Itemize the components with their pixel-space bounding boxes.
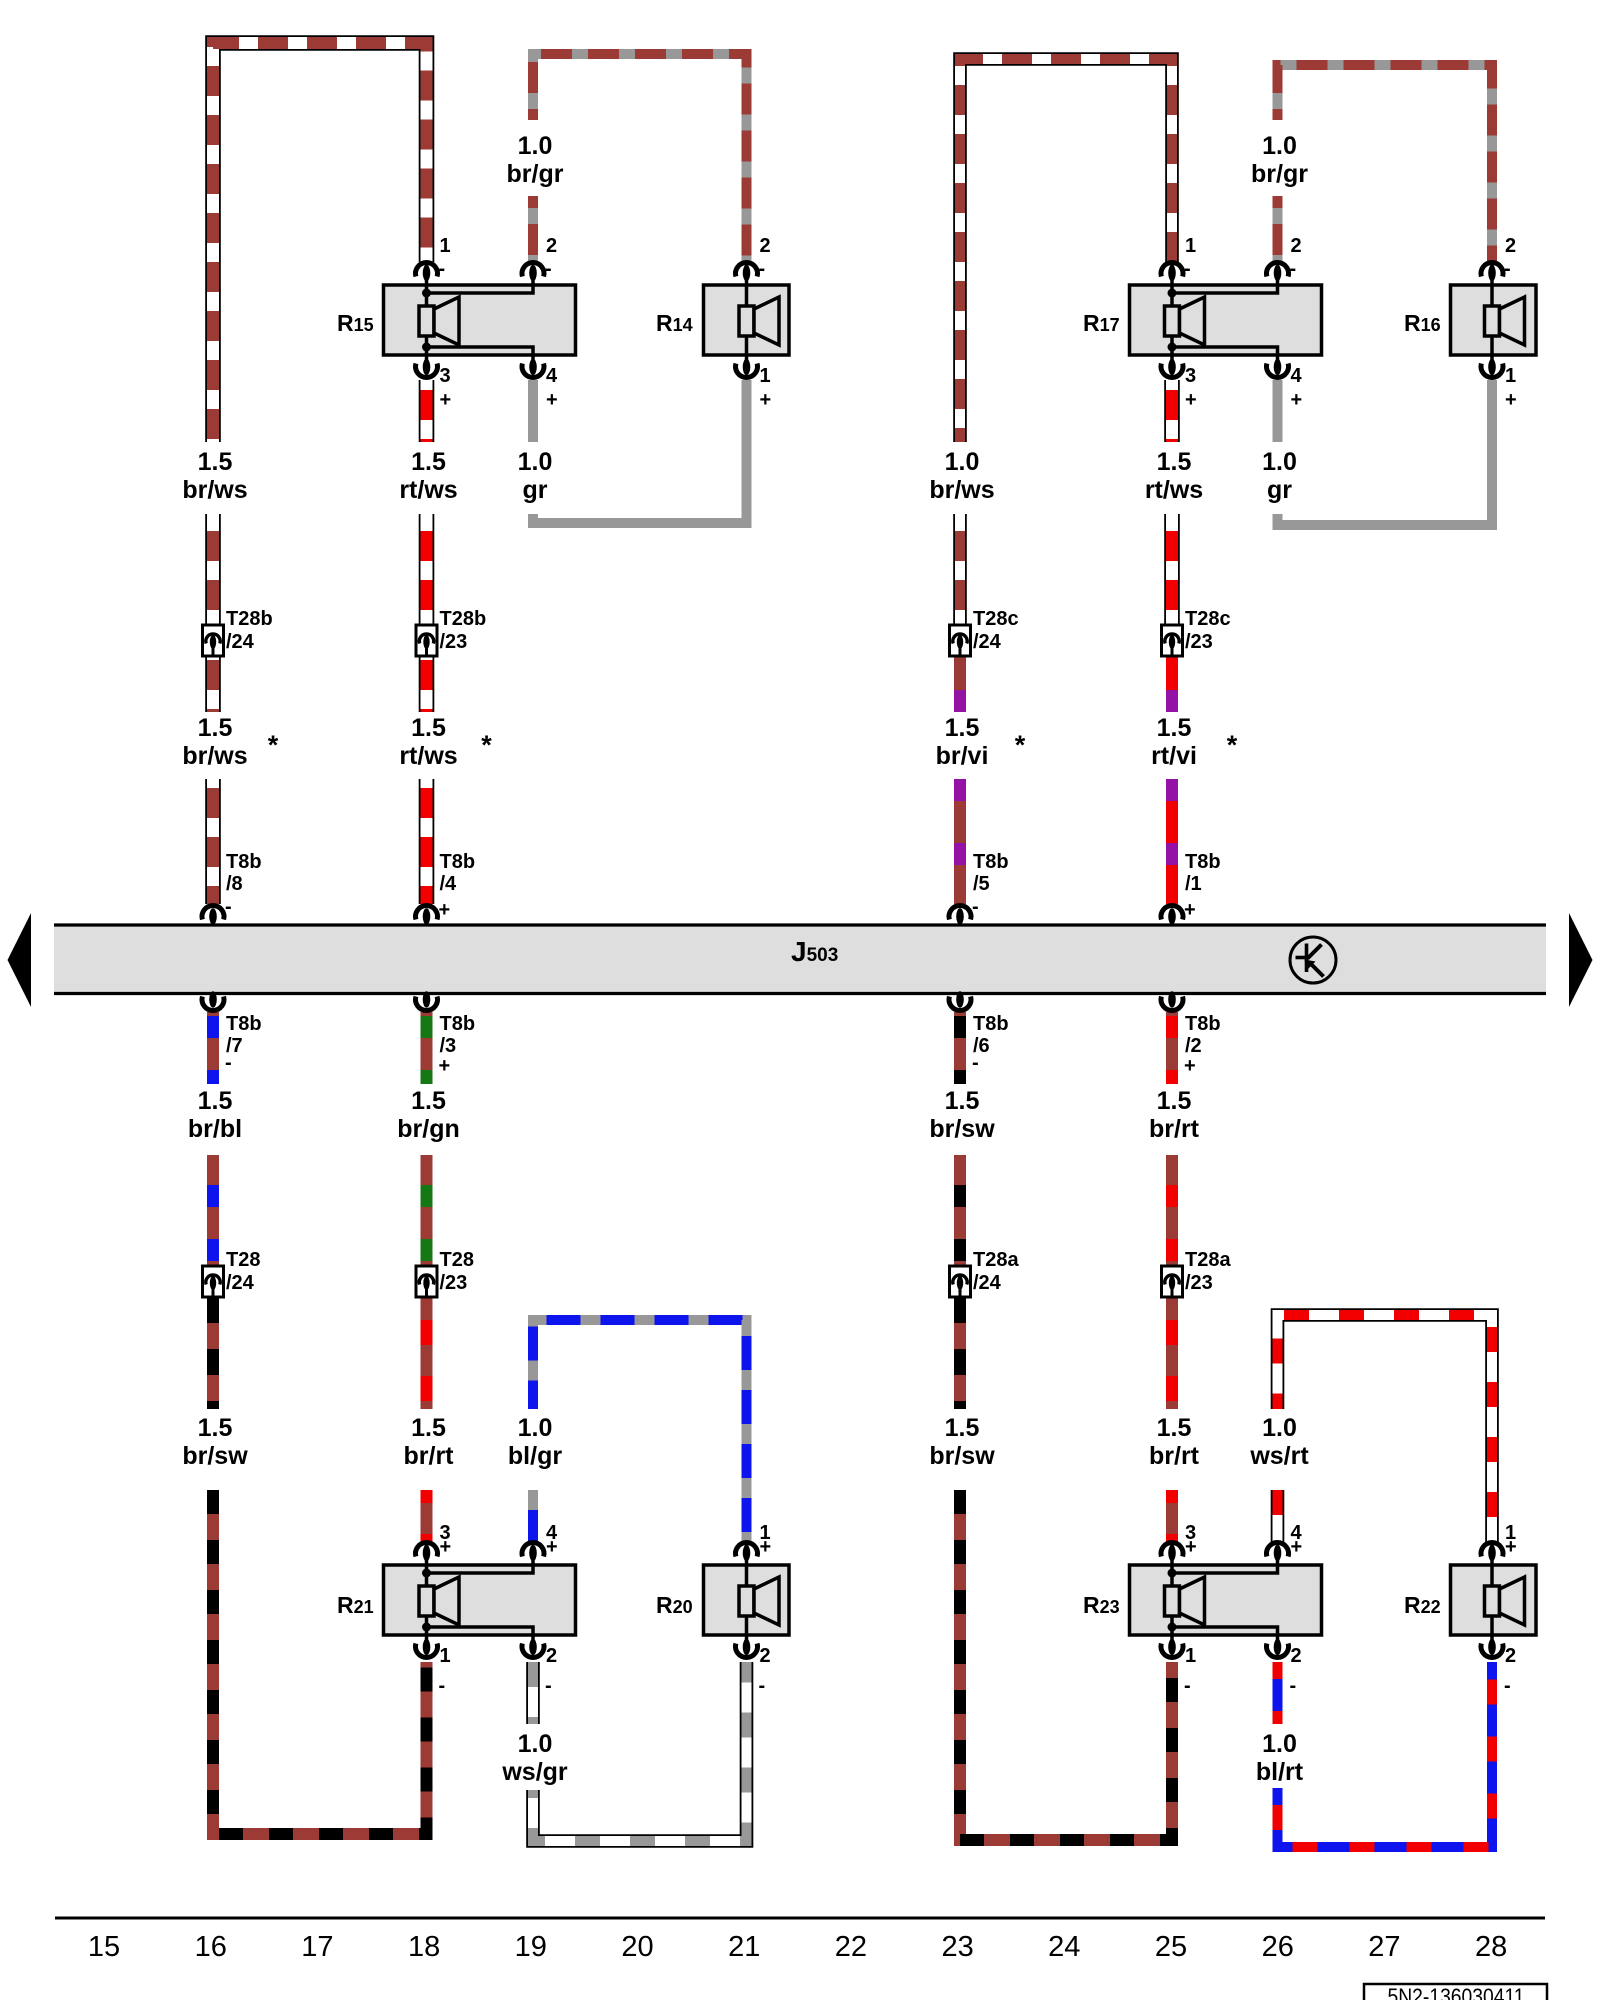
- wire 1.0 bl/rt loop to R22 pin2: [1278, 1662, 1493, 1847]
- svg-text:R23: R23: [1083, 1592, 1120, 1618]
- part number 5N2-136030411: [1364, 1984, 1547, 2000]
- svg-text:17: 17: [301, 1931, 333, 1963]
- svg-text:3: 3: [1185, 365, 1196, 387]
- svg-text:T28c: T28c: [973, 608, 1019, 630]
- loudspeaker R21: [384, 1544, 576, 1654]
- svg-text:5N2-136030411: 5N2-136030411: [1388, 1984, 1525, 2000]
- svg-text:+: +: [440, 1536, 452, 1558]
- svg-text:/3: /3: [440, 1035, 457, 1057]
- pin R20/1: [736, 1522, 772, 1561]
- svg-text:*: *: [1227, 730, 1238, 760]
- pin R16/2: [1481, 235, 1516, 281]
- wire label 1.5 rt/ws right row1: [1145, 448, 1203, 504]
- svg-text:1: 1: [1185, 235, 1196, 257]
- svg-text:1.5: 1.5: [945, 1087, 980, 1115]
- svg-text:1.0: 1.0: [518, 132, 553, 160]
- svg-text:rt/ws: rt/ws: [1145, 476, 1203, 504]
- svg-text:1.5: 1.5: [1157, 714, 1192, 742]
- loudspeaker R14: [704, 264, 790, 374]
- svg-text:/23: /23: [440, 1272, 468, 1294]
- connector T8b/1 at J503: [1161, 851, 1221, 925]
- svg-text:-: -: [225, 1052, 232, 1074]
- svg-text:/24: /24: [226, 1272, 255, 1294]
- svg-text:+: +: [1291, 389, 1303, 411]
- wire 1.5 br/rt col25 seg3: [1166, 1297, 1178, 1409]
- svg-text:/24: /24: [226, 631, 255, 653]
- designator R23: [1083, 1592, 1120, 1618]
- svg-text:br/sw: br/sw: [929, 1442, 995, 1470]
- svg-text:T28b: T28b: [440, 608, 487, 630]
- loudspeaker R17: [1130, 264, 1322, 374]
- svg-text:1.5: 1.5: [198, 714, 233, 742]
- svg-text:br/bl: br/bl: [188, 1115, 242, 1143]
- designator J503: [791, 936, 838, 967]
- wire 1.5 br/rt col18 seg4: [421, 1490, 433, 1542]
- svg-text:1.5: 1.5: [1157, 1414, 1192, 1442]
- control unit J503: [54, 925, 1546, 994]
- wire 1.0 br/gr R15 pin2 upper: [528, 196, 538, 262]
- wire 1.0 gr loop to R16 pin1: [1278, 380, 1493, 525]
- connector T8b/8 at J503: [202, 851, 262, 925]
- wire 1.5 rt/ws col18 seg3: [419, 657, 435, 712]
- svg-text:R22: R22: [1404, 1592, 1441, 1618]
- pin R14/2: [736, 235, 771, 281]
- continuation arrow right: [1569, 913, 1593, 1007]
- svg-text:/5: /5: [973, 873, 990, 895]
- svg-text:+: +: [546, 1536, 558, 1558]
- svg-text:-: -: [759, 258, 766, 280]
- wire 1.0 gr loop to R14 pin1: [533, 380, 747, 523]
- svg-text:2: 2: [760, 1645, 771, 1667]
- svg-text:/23: /23: [1185, 631, 1213, 653]
- svg-text:1.5: 1.5: [1157, 1087, 1192, 1115]
- svg-text:-: -: [1504, 1675, 1511, 1697]
- svg-text:rt/ws: rt/ws: [399, 476, 457, 504]
- pin R17/4: [1266, 359, 1302, 411]
- inline connector T28a/24: [950, 1249, 1020, 1297]
- wire 1.5 br/ws left loop R15 pin1: [213, 43, 427, 442]
- inline connector T28c/23: [1162, 608, 1231, 656]
- svg-text:1: 1: [1505, 365, 1516, 387]
- wire 1.5 rt/vi col25 seg3: [1166, 657, 1178, 712]
- wire label 1.5 br/bl: [188, 1087, 242, 1143]
- svg-text:T8b: T8b: [440, 851, 476, 873]
- loudspeaker R15: [384, 264, 576, 374]
- pin R15/2: [522, 235, 557, 281]
- svg-text:1.5: 1.5: [198, 1414, 233, 1442]
- svg-text:rt/ws: rt/ws: [399, 742, 457, 770]
- grid numbers 15-28: [88, 1931, 1507, 1963]
- svg-text:+: +: [760, 389, 772, 411]
- svg-text:br/gr: br/gr: [507, 160, 564, 188]
- wire 1.5 rt/vi col25 seg4: [1166, 779, 1178, 904]
- svg-text:26: 26: [1262, 1931, 1294, 1963]
- pin R20/2: [736, 1639, 771, 1697]
- connector T8b/3 at J503: [416, 991, 476, 1077]
- pin R17/3: [1161, 359, 1197, 411]
- svg-text:2: 2: [1505, 235, 1516, 257]
- svg-text:1.5: 1.5: [198, 1087, 233, 1115]
- wire 1.5 br/vi col23 seg3: [954, 657, 966, 712]
- inline connector T28b/23: [416, 608, 486, 656]
- wire label 1.0 gr left: [518, 448, 553, 504]
- inline connector T28/24: [203, 1249, 261, 1297]
- svg-text:+: +: [440, 389, 452, 411]
- pin R17/2: [1266, 235, 1301, 281]
- svg-text:T8b: T8b: [226, 1013, 262, 1035]
- svg-text:br/rt: br/rt: [1149, 1115, 1200, 1143]
- svg-text:25: 25: [1155, 1931, 1187, 1963]
- wire 1.5 br/gn col18 seg1: [421, 1012, 433, 1084]
- svg-text:27: 27: [1368, 1931, 1400, 1963]
- wire label 1.5 br/ws row2: [182, 714, 247, 770]
- wire 1.0 br/gr loop to R16 pin2: [1278, 65, 1493, 262]
- pin R16/1: [1481, 359, 1517, 411]
- svg-text:-: -: [439, 1675, 446, 1697]
- wire label 1.0 br/gr left: [507, 132, 564, 188]
- svg-text:br/ws: br/ws: [182, 742, 247, 770]
- svg-text:28: 28: [1475, 1931, 1507, 1963]
- designator R15: [337, 310, 374, 336]
- wire 1.5 br/sw col23 seg1: [954, 1012, 966, 1084]
- wire label 1.5 br/rt row4: [404, 1414, 455, 1470]
- pin R23/4: [1267, 1522, 1303, 1561]
- svg-text:1.5: 1.5: [945, 1414, 980, 1442]
- svg-text:-: -: [225, 896, 232, 918]
- svg-text:16: 16: [195, 1931, 227, 1963]
- svg-text:1.0: 1.0: [518, 1414, 553, 1442]
- svg-text:br/gr: br/gr: [1251, 160, 1308, 188]
- footnote asterisk col25: [1227, 730, 1238, 760]
- svg-text:R17: R17: [1083, 310, 1120, 336]
- wire 1.5 br/bl col16 seg2: [207, 1155, 219, 1266]
- inline connector T28b/24: [203, 608, 273, 656]
- connector T8b/5 at J503: [949, 851, 1009, 925]
- pin R23/2: [1267, 1639, 1302, 1697]
- wire 1.0 bl/gr col19 seg2: [528, 1490, 538, 1542]
- wire 1.0 ws/gr loop to R20 pin2: [533, 1662, 747, 1841]
- wire label 1.5 br/rt right r4: [1149, 1414, 1200, 1470]
- wire 1.5 br/rt col25 seg4: [1166, 1490, 1178, 1542]
- svg-text:/24: /24: [973, 1272, 1002, 1294]
- wire 1.5 rt/ws col18 seg1: [419, 380, 435, 442]
- wire 1.0 bl/rt col26 seg1: [1273, 1662, 1283, 1724]
- svg-text:-: -: [1290, 1675, 1297, 1697]
- svg-text:T8b: T8b: [973, 851, 1009, 873]
- wire 1.0 br/gr R17 pin2 upper: [1273, 196, 1283, 262]
- svg-text:+: +: [1505, 1536, 1517, 1558]
- svg-text:24: 24: [1048, 1931, 1080, 1963]
- footnote asterisk col16: [268, 730, 279, 760]
- wire label 1.0 br/ws right row1: [929, 448, 994, 504]
- svg-text:3: 3: [440, 365, 451, 387]
- loudspeaker R23: [1130, 1544, 1322, 1654]
- inline connector T28a/23: [1162, 1249, 1232, 1297]
- pin R21/3: [416, 1522, 452, 1561]
- connector T8b/6 at J503: [949, 991, 1009, 1074]
- svg-text:1.5: 1.5: [198, 448, 233, 476]
- svg-text:-: -: [1504, 258, 1511, 280]
- svg-text:T8b: T8b: [226, 851, 262, 873]
- svg-text:-: -: [1184, 258, 1191, 280]
- wire label 1.5 rt/ws row1: [399, 448, 457, 504]
- connector T8b/7 at J503: [202, 991, 262, 1074]
- svg-text:1.0: 1.0: [518, 448, 553, 476]
- pin R22/2: [1481, 1639, 1516, 1697]
- continuation arrow left: [8, 913, 32, 1007]
- svg-text:22: 22: [835, 1931, 867, 1963]
- wire 1.5 br/sw loop to R21 pin1: [213, 1490, 427, 1834]
- svg-text:+: +: [1505, 389, 1517, 411]
- svg-text:br/rt: br/rt: [1149, 1442, 1200, 1470]
- svg-text:4: 4: [1291, 365, 1303, 387]
- designator R20: [656, 1592, 693, 1618]
- svg-text:T28a: T28a: [1185, 1249, 1231, 1271]
- wire 1.5 br/vi col23 seg4: [954, 779, 966, 904]
- svg-text:R14: R14: [656, 310, 693, 336]
- svg-text:1.5: 1.5: [411, 714, 446, 742]
- svg-text:1.0: 1.0: [1262, 1414, 1297, 1442]
- svg-text:/24: /24: [973, 631, 1002, 653]
- svg-text:T28: T28: [226, 1249, 260, 1271]
- wire 1.5 br/ws col16 seg4: [205, 779, 221, 904]
- loudspeaker R16: [1451, 264, 1537, 374]
- pin R15/4: [522, 359, 558, 411]
- wire 1.0 ws/rt col26 seg2: [1271, 1490, 1285, 1542]
- wire label 1.5 br/gn: [397, 1087, 460, 1143]
- svg-text:bl/rt: bl/rt: [1256, 1758, 1304, 1786]
- wire label 1.5 br/sw right r3: [929, 1087, 995, 1143]
- wire label 1.0 ws/gr: [501, 1730, 568, 1786]
- wire 1.0 ws/rt loop R22 pin1 to R23 pin4: [1278, 1315, 1493, 1542]
- svg-text:br/rt: br/rt: [404, 1442, 455, 1470]
- svg-text:/23: /23: [440, 631, 468, 653]
- svg-text:2: 2: [546, 1645, 557, 1667]
- svg-text:20: 20: [621, 1931, 653, 1963]
- svg-text:1.5: 1.5: [411, 448, 446, 476]
- svg-text:-: -: [972, 1052, 979, 1074]
- svg-text:1: 1: [440, 1645, 451, 1667]
- svg-text:1.0: 1.0: [518, 1730, 553, 1758]
- svg-text:R15: R15: [337, 310, 374, 336]
- connector T8b/4 at J503: [416, 851, 476, 925]
- svg-text:23: 23: [941, 1931, 973, 1963]
- wire label 1.5 br/vi row2: [936, 714, 989, 770]
- pin R23/1: [1161, 1639, 1196, 1697]
- pin R21/1: [416, 1639, 451, 1697]
- svg-text:gr: gr: [523, 476, 548, 504]
- wire 1.0 bl/gr loop R20 pin1 to R21 pin4: [533, 1320, 747, 1542]
- wire 1.5 rt/ws col25 seg1: [1164, 380, 1180, 442]
- wire 1.5 rt/ws col25 seg2: [1164, 514, 1180, 625]
- wire label 1.5 br/ws row1: [182, 448, 247, 504]
- svg-text:T28b: T28b: [226, 608, 273, 630]
- footnote asterisk col18: [481, 730, 492, 760]
- svg-text:ws/rt: ws/rt: [1249, 1442, 1309, 1470]
- svg-text:1.0: 1.0: [1262, 448, 1297, 476]
- svg-text:bl/gr: bl/gr: [508, 1442, 562, 1470]
- svg-text:+: +: [1185, 389, 1197, 411]
- svg-text:1.0: 1.0: [1262, 132, 1297, 160]
- svg-text:R21: R21: [337, 1592, 374, 1618]
- svg-text:1.0: 1.0: [1262, 1730, 1297, 1758]
- footnote asterisk col23: [1015, 730, 1026, 760]
- svg-text:+: +: [1184, 1055, 1196, 1077]
- wire label 1.0 ws/rt: [1249, 1414, 1309, 1470]
- svg-text:18: 18: [408, 1931, 440, 1963]
- wire 1.5 br/ws col16 seg3: [205, 657, 221, 712]
- svg-text:T8b: T8b: [973, 1013, 1009, 1035]
- wire 1.5 br/sw col23 seg3: [954, 1297, 966, 1409]
- wire label 1.0 bl/rt: [1256, 1730, 1304, 1786]
- designator R17: [1083, 310, 1120, 336]
- svg-text:-: -: [545, 1675, 552, 1697]
- loudspeaker R22: [1451, 1544, 1537, 1654]
- svg-text:+: +: [1185, 1536, 1197, 1558]
- svg-text:1.5: 1.5: [1157, 448, 1192, 476]
- wire label 1.5 br/sw right r4: [929, 1414, 995, 1470]
- svg-text:+: +: [1291, 1536, 1303, 1558]
- svg-text:+: +: [760, 1536, 772, 1558]
- wire label 1.5 rt/ws row2: [399, 714, 457, 770]
- loudspeaker R20: [704, 1544, 790, 1654]
- svg-text:/4: /4: [440, 873, 458, 895]
- svg-text:T8b: T8b: [1185, 851, 1221, 873]
- svg-text:1: 1: [440, 235, 451, 257]
- grid scale line: [55, 1917, 1545, 1920]
- svg-text:+: +: [439, 1055, 451, 1077]
- svg-text:T28a: T28a: [973, 1249, 1019, 1271]
- svg-text:rt/vi: rt/vi: [1151, 742, 1197, 770]
- wire 1.5 br/rt col25 seg2: [1166, 1155, 1178, 1266]
- svg-text:R16: R16: [1404, 310, 1441, 336]
- svg-text:19: 19: [515, 1931, 547, 1963]
- inline connector T28c/24: [950, 608, 1019, 656]
- pin R21/2: [522, 1639, 557, 1697]
- pin R15/1: [416, 235, 451, 281]
- svg-text:T28: T28: [440, 1249, 474, 1271]
- svg-text:-: -: [439, 258, 446, 280]
- svg-text:br/ws: br/ws: [182, 476, 247, 504]
- wire label 1.0 gr right: [1262, 448, 1297, 504]
- svg-text:*: *: [1015, 730, 1026, 760]
- svg-text:-: -: [1184, 1675, 1191, 1697]
- svg-text:*: *: [268, 730, 279, 760]
- svg-text:2: 2: [1291, 235, 1302, 257]
- wire 1.0 br/ws right loop R17 pin1: [960, 59, 1172, 442]
- svg-text:/2: /2: [1185, 1035, 1202, 1057]
- pin R22/1: [1481, 1522, 1517, 1561]
- svg-text:ws/gr: ws/gr: [501, 1758, 568, 1786]
- svg-text:/8: /8: [226, 873, 243, 895]
- wire 1.0 br/ws col23 seg2: [953, 514, 967, 625]
- svg-text:2: 2: [760, 235, 771, 257]
- pin R21/4: [522, 1522, 558, 1561]
- svg-text:+: +: [1184, 899, 1196, 921]
- svg-text:1.0: 1.0: [945, 448, 980, 476]
- wire 1.5 rt/ws col18 seg4: [419, 779, 435, 904]
- svg-text:+: +: [439, 899, 451, 921]
- svg-text:21: 21: [728, 1931, 760, 1963]
- wire 1.0 gr R15 pin4 seg: [528, 380, 538, 442]
- inline connector T28/23: [416, 1249, 474, 1297]
- sound component symbol in J503: [1290, 937, 1336, 983]
- wire 1.5 br/bl col16 seg1: [207, 1012, 219, 1084]
- svg-text:2: 2: [1505, 1645, 1516, 1667]
- svg-text:1: 1: [760, 365, 771, 387]
- wire 1.5 br/rt col25 seg1: [1166, 1012, 1178, 1084]
- designator R14: [656, 310, 693, 336]
- wire label 1.5 br/sw row4: [182, 1414, 248, 1470]
- svg-text:+: +: [546, 389, 558, 411]
- svg-text:15: 15: [88, 1931, 120, 1963]
- svg-text:1: 1: [1185, 1645, 1196, 1667]
- svg-text:/1: /1: [1185, 873, 1202, 895]
- wire 1.5 br/sw col16 seg3: [207, 1297, 219, 1409]
- svg-text:br/ws: br/ws: [929, 476, 994, 504]
- svg-text:*: *: [481, 730, 492, 760]
- svg-text:br/gn: br/gn: [397, 1115, 460, 1143]
- pin R23/3: [1161, 1522, 1197, 1561]
- wire 1.5 br/gn col18 seg2: [421, 1155, 433, 1266]
- wire 1.5 br/sw col23 seg2: [954, 1155, 966, 1266]
- pin R17/1: [1161, 235, 1196, 281]
- designator R16: [1404, 310, 1441, 336]
- svg-text:br/vi: br/vi: [936, 742, 989, 770]
- svg-text:T8b: T8b: [1185, 1013, 1221, 1035]
- svg-text:/23: /23: [1185, 1272, 1213, 1294]
- pin R14/1: [736, 359, 772, 411]
- svg-text:br/sw: br/sw: [929, 1115, 995, 1143]
- connector T8b/2 at J503: [1161, 991, 1221, 1077]
- svg-text:-: -: [1290, 258, 1297, 280]
- designator R21: [337, 1592, 374, 1618]
- wire 1.5 rt/ws col18 seg2: [419, 514, 435, 625]
- svg-text:2: 2: [1291, 1645, 1302, 1667]
- wire 1.5 br/ws col16 seg2: [205, 514, 221, 625]
- wire 1.0 ws/gr col19 seg1: [526, 1662, 540, 1724]
- svg-text:4: 4: [546, 365, 558, 387]
- svg-text:-: -: [759, 1675, 766, 1697]
- svg-text:T8b: T8b: [440, 1013, 476, 1035]
- wire label 1.5 br/rt right r3: [1149, 1087, 1200, 1143]
- wire 1.5 br/rt col18 seg3: [421, 1297, 433, 1409]
- wire label 1.0 bl/gr: [508, 1414, 562, 1470]
- wire 1.0 br/gr loop to R14 pin2: [533, 54, 747, 262]
- wire label 1.5 rt/vi row2: [1151, 714, 1197, 770]
- svg-text:br/sw: br/sw: [182, 1442, 248, 1470]
- svg-text:1.5: 1.5: [411, 1414, 446, 1442]
- wire 1.5 br/sw loop to R23 pin1: [960, 1490, 1172, 1840]
- svg-text:T28c: T28c: [1185, 608, 1231, 630]
- wire label 1.0 br/gr right: [1251, 132, 1308, 188]
- svg-text:-: -: [545, 258, 552, 280]
- svg-text:gr: gr: [1267, 476, 1292, 504]
- svg-text:1.5: 1.5: [945, 714, 980, 742]
- wire 1.0 gr R17 pin4 seg: [1273, 380, 1283, 442]
- pin R15/3: [416, 359, 452, 411]
- svg-text:R20: R20: [656, 1592, 693, 1618]
- svg-text:-: -: [972, 896, 979, 918]
- designator R22: [1404, 1592, 1441, 1618]
- svg-text:2: 2: [546, 235, 557, 257]
- svg-text:1.5: 1.5: [411, 1087, 446, 1115]
